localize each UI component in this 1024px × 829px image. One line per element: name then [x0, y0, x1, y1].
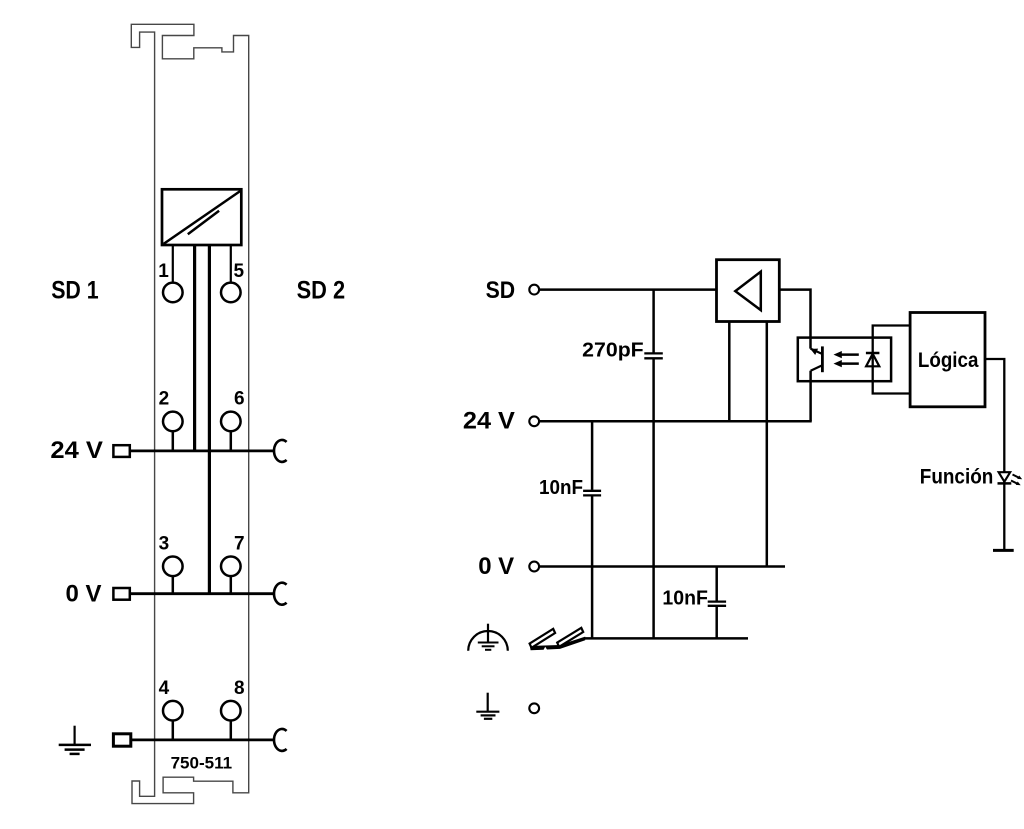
svg-text:Función: Función — [920, 465, 994, 488]
logic output wire — [985, 359, 1004, 550]
DIN rail symbol — [530, 628, 586, 650]
0V row: stem circle 3 — [172, 576, 175, 594]
svg-text:6: 6 — [234, 389, 245, 410]
270pF branch wire lower — [652, 359, 655, 638]
0V row line — [130, 592, 274, 595]
LED diode of optocoupler — [866, 353, 880, 366]
0V wire — [539, 565, 785, 568]
svg-text:8: 8 — [234, 678, 245, 699]
10nF#1 branch upper — [591, 421, 594, 490]
24V row: stem to circle 2 — [172, 431, 175, 451]
svg-text:SD 2: SD 2 — [297, 277, 346, 305]
0V left connector square — [113, 588, 129, 600]
amp output wire — [779, 290, 810, 349]
transistor arrow — [810, 349, 818, 355]
module outline — [131, 24, 248, 803]
SD terminal circle — [529, 285, 539, 295]
ground right arc — [274, 729, 287, 751]
bottom earth symbol — [476, 693, 499, 719]
terminal circle 8 — [221, 701, 241, 721]
stem circle 8 — [230, 721, 233, 740]
wire box to pin5 — [230, 245, 232, 283]
24V right arc — [274, 440, 287, 462]
amp leg to 24V — [728, 322, 731, 422]
LED Funcion — [998, 472, 1012, 483]
terminal circle 4 — [163, 701, 183, 721]
stem circle 7 — [230, 576, 233, 594]
svg-text:5: 5 — [234, 261, 245, 282]
0V terminal circle — [529, 562, 539, 572]
24V wire — [539, 420, 811, 423]
LED wire loop to logic — [873, 326, 910, 394]
terminal circle 5 — [221, 283, 241, 303]
chassis earth symbol (arc) — [468, 624, 508, 651]
capacitor 10nF#2 — [708, 600, 726, 602]
24V terminal circle — [529, 416, 539, 426]
wire box to pin1 — [172, 245, 174, 283]
svg-text:2: 2 — [159, 389, 170, 410]
terminal circle 6 — [221, 412, 241, 432]
svg-text:Lógica: Lógica — [918, 349, 979, 372]
stem circle 6 — [230, 431, 233, 451]
capacitor 10nF#1 — [583, 490, 601, 492]
terminal circle 7 — [221, 557, 241, 577]
24V row line — [130, 449, 274, 452]
wire bus left (box to 24V line) — [193, 245, 196, 451]
logic box U2 — [910, 313, 985, 407]
24V left connector square — [113, 445, 129, 457]
filter diagonal short — [188, 211, 219, 235]
amp triangle — [735, 272, 761, 311]
svg-text:SD: SD — [486, 277, 515, 304]
svg-text:270pF: 270pF — [582, 339, 644, 362]
terminal circle 1 — [163, 283, 183, 303]
ground left connector square — [113, 734, 130, 746]
ground row line — [130, 739, 274, 742]
light arrow lower — [834, 360, 859, 367]
svg-text:24 V: 24 V — [50, 437, 103, 464]
phototransistor Q1 — [811, 346, 823, 372]
svg-text:10nF: 10nF — [539, 476, 583, 499]
filter box U1 — [162, 189, 241, 245]
capacitor 270pF — [644, 352, 663, 354]
SD wire to amp — [539, 288, 716, 291]
10nF#2 branch upper — [715, 567, 718, 601]
270pF branch wire upper — [652, 290, 655, 353]
svg-text:24 V: 24 V — [463, 408, 515, 435]
svg-text:SD 1: SD 1 — [51, 277, 99, 305]
amp box — [717, 260, 780, 322]
wire bus right (box to 0V line) — [208, 245, 211, 594]
svg-text:0 V: 0 V — [66, 581, 102, 608]
chassis wire — [585, 637, 749, 640]
emitter wire to 24V — [809, 371, 812, 422]
svg-text:750-511: 750-511 — [171, 754, 233, 773]
amp leg to 0V — [766, 322, 769, 567]
svg-text:7: 7 — [234, 534, 245, 555]
svg-text:4: 4 — [159, 678, 170, 699]
svg-text:0 V: 0 V — [478, 553, 514, 580]
svg-text:1: 1 — [158, 261, 169, 282]
0V terminal bar of LED — [993, 549, 1014, 552]
earth symbol left of module — [59, 726, 91, 754]
10nF#1 branch lower — [591, 496, 594, 638]
optocoupler box — [798, 338, 891, 382]
0V right arc — [274, 583, 287, 605]
bottom terminal circle — [529, 703, 539, 713]
light arrow upper — [834, 351, 859, 358]
svg-text:10nF: 10nF — [662, 587, 708, 610]
terminal circle 2 — [163, 412, 183, 432]
LED light rays — [1011, 475, 1022, 486]
svg-text:3: 3 — [159, 534, 170, 555]
10nF#2 branch lower — [715, 607, 718, 639]
ground row: stem circle 4 — [172, 721, 175, 740]
terminal circle 3 — [163, 557, 183, 577]
filter diagonal main — [164, 191, 241, 244]
